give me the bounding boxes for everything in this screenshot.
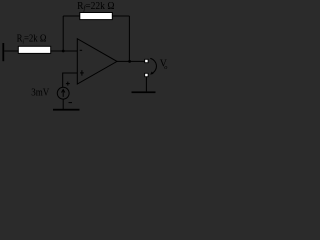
svg-text:o: o xyxy=(164,64,167,71)
wire (noninverting input) xyxy=(63,73,78,87)
svg-text:3mV: 3mV xyxy=(31,87,50,99)
plus sign (noninverting input) xyxy=(80,72,84,74)
wire (left bar to R1) xyxy=(4,50,18,52)
op-amp U1 xyxy=(77,39,117,84)
label R1=2k ohm xyxy=(17,33,47,46)
label Rf=22k ohm xyxy=(77,0,115,12)
ground (below source) xyxy=(53,109,80,111)
ground (below output) xyxy=(132,91,156,93)
wire (source to ground) xyxy=(62,99,64,109)
arrowhead of voltage arc xyxy=(151,72,154,74)
ground (left reference bar) xyxy=(2,43,4,61)
minus sign (source) xyxy=(69,102,73,104)
resistor R1 xyxy=(18,46,50,53)
label Vo xyxy=(160,58,168,70)
wire (R1 to inverting input) xyxy=(51,50,78,52)
source Vin 3mV xyxy=(57,87,69,99)
voltage arc Vo xyxy=(150,58,156,73)
minus sign (inverting input) xyxy=(80,49,82,51)
wire (op-amp output) xyxy=(117,60,145,62)
node B (junction dot output) xyxy=(128,60,131,63)
svg-text:Ri=2k Ω: Ri=2k Ω xyxy=(17,33,47,46)
resistor Rf xyxy=(80,13,113,20)
wire (feedback down to output) xyxy=(128,16,130,61)
plus sign (source) xyxy=(66,83,70,85)
node A (junction dot inverting input) xyxy=(62,50,65,53)
wire (up to Rf) xyxy=(63,15,80,17)
wire (Rf to right) xyxy=(112,15,129,17)
wire (junction up) xyxy=(62,16,64,51)
output terminal (top) xyxy=(145,59,148,62)
output terminal (bottom) xyxy=(145,73,148,76)
arrow inside source xyxy=(62,90,64,97)
label 3mV xyxy=(31,87,50,99)
wire (bottom terminal to ground) xyxy=(145,77,147,92)
svg-text:Rf=22k Ω: Rf=22k Ω xyxy=(77,0,115,12)
